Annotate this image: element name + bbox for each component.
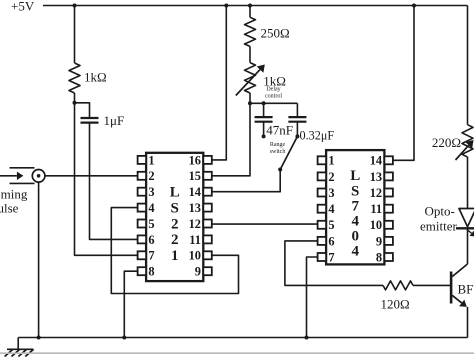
IC U2 74LS7404 hex inverter <box>318 150 393 264</box>
svg-text:9: 9 <box>376 234 382 248</box>
svg-text:2: 2 <box>171 216 179 232</box>
resistor R5 120&#937; <box>383 281 413 290</box>
svg-text:120Ω: 120Ω <box>381 297 410 312</box>
junction +5V / R1 250 <box>248 4 252 8</box>
wire U1 pin8 to ground <box>124 271 137 337</box>
junction +5V / U1 pin16 <box>224 4 228 8</box>
svg-text:14: 14 <box>370 154 382 168</box>
resistor R1 250&#937; <box>245 17 256 46</box>
svg-text:14: 14 <box>189 185 201 199</box>
wire U1 pin4 to U1 pin10 route <box>111 208 238 294</box>
wire +5V rail end down to R4 <box>467 6 469 125</box>
wire Q1 emitter to ground <box>467 307 469 338</box>
svg-text:13: 13 <box>189 201 201 215</box>
wire node B down to U1 pin15 <box>212 103 250 176</box>
label Delay control <box>265 87 282 100</box>
svg-text:pulse: pulse <box>0 201 19 216</box>
wire R3 bottom to node A <box>74 93 76 103</box>
wire to C3 top <box>296 103 298 116</box>
svg-text:3: 3 <box>148 185 154 199</box>
svg-text:3: 3 <box>328 186 334 200</box>
svg-text:L: L <box>170 185 180 201</box>
label C2 47nF <box>266 123 293 138</box>
node A junction dot (R3/C1/U1.7) <box>73 101 77 105</box>
svg-text:15: 15 <box>189 169 201 183</box>
svg-text:1: 1 <box>328 154 334 168</box>
svg-text:control: control <box>265 94 282 100</box>
wire U2 pin7 to ground <box>307 257 318 338</box>
label R2 1k&#937; <box>263 74 286 89</box>
input connector J1 sleeve lines <box>10 168 35 184</box>
svg-text:1kΩ: 1kΩ <box>84 70 107 85</box>
svg-text:7: 7 <box>351 198 359 214</box>
svg-text:11: 11 <box>370 202 382 216</box>
switch SW1 range lever <box>280 136 297 169</box>
switch SW1 pole dot <box>278 168 282 172</box>
wire R1 bottom to R2 top <box>249 46 251 62</box>
label Opto- <box>425 204 455 219</box>
wire +5V to R1 top <box>249 6 251 18</box>
+5V label <box>11 0 35 14</box>
wire U1 pin12 to U2 pin5 <box>212 223 318 225</box>
svg-text:10: 10 <box>189 249 201 263</box>
wire U1 pin16 to +5V <box>212 6 227 160</box>
label C1 1&#956;F <box>104 113 125 128</box>
LED D1 cathode bar <box>456 227 474 229</box>
junction +5V / R3 1k <box>73 4 77 8</box>
svg-text:250Ω: 250Ω <box>261 26 290 41</box>
label R1 250&#937; <box>261 26 290 41</box>
svg-text:1: 1 <box>148 153 154 167</box>
svg-text:Incoming: Incoming <box>0 187 28 202</box>
wire D1 cathode to Q1 collector <box>467 230 469 265</box>
svg-text:7: 7 <box>328 250 334 264</box>
svg-text:1μF: 1μF <box>104 113 125 128</box>
wire node B across cap tops <box>250 102 297 104</box>
wire J1 shield to ground <box>38 182 40 337</box>
junction +5V / U2 pin14 <box>412 4 416 8</box>
ground rail wire <box>18 337 467 339</box>
transistor Q1 base bar <box>450 272 453 304</box>
wire C1 bottom to U1 pin6 <box>90 122 138 239</box>
capacitor C2 47nF <box>255 117 273 122</box>
svg-text:10: 10 <box>370 218 382 232</box>
wire +5V to R3 top <box>74 6 76 64</box>
input connector J1 circle <box>32 170 45 183</box>
label emitter <box>420 219 457 234</box>
wire R2 bottom to node B <box>249 93 251 103</box>
wire SW1 pole to U1 pin14 <box>212 170 280 192</box>
label R4 220&#937; <box>432 135 461 150</box>
svg-text:switch: switch <box>270 149 286 155</box>
wire to C2 top <box>263 103 265 116</box>
junction node B / C2 top <box>262 101 266 105</box>
svg-text:12: 12 <box>370 186 382 200</box>
LED D1 emission arrow <box>467 230 474 237</box>
input connector J1 center pin <box>37 174 41 178</box>
svg-text:emitter: emitter <box>420 219 457 234</box>
svg-text:6: 6 <box>148 233 154 247</box>
label Incoming <box>0 187 28 202</box>
page edge artifact line <box>0 352 474 354</box>
wire R4 to D1 anode <box>467 157 469 209</box>
svg-text:9: 9 <box>195 265 201 279</box>
svg-text:5: 5 <box>328 218 334 232</box>
potentiometer R2 1k delay <box>236 63 265 96</box>
label Q1 BFY <box>458 282 474 297</box>
input signal arrow <box>0 172 23 180</box>
svg-text:S: S <box>351 183 359 199</box>
label pulse <box>0 201 19 216</box>
svg-text:7: 7 <box>148 249 154 263</box>
svg-text:S: S <box>171 201 179 217</box>
svg-text:Opto-: Opto- <box>425 204 455 219</box>
svg-text:8: 8 <box>376 250 382 264</box>
wire U2 pin14 to +5V <box>393 6 414 161</box>
junction ground / J1 shield <box>37 336 41 340</box>
svg-text:13: 13 <box>370 170 382 184</box>
svg-text:11: 11 <box>189 233 201 247</box>
svg-text:4: 4 <box>148 201 154 215</box>
svg-text:4: 4 <box>351 214 359 230</box>
svg-text:2: 2 <box>148 169 154 183</box>
svg-text:4: 4 <box>351 244 359 260</box>
svg-text:Delay: Delay <box>266 87 280 93</box>
switch throw contact C2 <box>262 134 266 138</box>
svg-text:+5V: +5V <box>11 0 35 14</box>
svg-text:6: 6 <box>328 234 334 248</box>
+5V power rail wire <box>43 5 468 7</box>
svg-text:BFY: BFY <box>458 282 474 297</box>
svg-text:16: 16 <box>189 153 201 167</box>
label R3 1k&#937; <box>84 70 107 85</box>
wire node A to C1 top <box>75 103 90 117</box>
wire C2 bottom to throw contact <box>263 121 265 136</box>
label R5 120&#937; <box>381 297 410 312</box>
wire node A down to U1 pin7 <box>75 103 138 256</box>
IC U1 74LS221 monostable <box>138 153 212 281</box>
svg-text:220Ω: 220Ω <box>432 135 461 150</box>
svg-text:1: 1 <box>171 248 179 264</box>
switch throw contact C3 <box>295 134 299 138</box>
svg-text:2: 2 <box>171 232 179 248</box>
svg-text:4: 4 <box>328 202 334 216</box>
label Range switch <box>270 142 286 155</box>
junction ground / U1 pin8 <box>122 336 126 340</box>
capacitor C1 1&#956;F <box>81 118 99 123</box>
LED D1 opto-emitter triangle <box>459 209 474 227</box>
svg-text:12: 12 <box>189 217 201 231</box>
rheostat R4 220&#937; <box>456 125 474 160</box>
resistor R3 1k&#937; <box>69 63 80 93</box>
label C3 0.32&#956;F <box>300 129 335 143</box>
transistor Q1 collector lead <box>452 264 467 277</box>
svg-text:0: 0 <box>351 229 359 245</box>
svg-text:0.32μF: 0.32μF <box>300 129 335 143</box>
capacitor C3 0.32&#956;F <box>288 117 306 122</box>
svg-text:2: 2 <box>328 170 334 184</box>
wire C3 bottom to throw contact <box>296 121 298 136</box>
wire R5 to Q1 base <box>413 284 450 286</box>
svg-text:47nF: 47nF <box>266 123 293 138</box>
svg-text:Range: Range <box>270 142 286 148</box>
wire ground rail to earth symbol <box>17 338 19 350</box>
ground earth symbol <box>5 349 34 356</box>
svg-text:L: L <box>350 168 360 184</box>
svg-text:5: 5 <box>148 217 154 231</box>
node B junction dot <box>248 101 252 105</box>
junction ground / U2 pin7 <box>305 336 309 340</box>
svg-text:8: 8 <box>148 265 154 279</box>
wire J1 to U1 pin2 <box>45 175 138 177</box>
transistor Q1 emitter lead with arrow <box>452 295 467 307</box>
wire U2 pin6 to R5 to Q1 base <box>285 241 383 286</box>
